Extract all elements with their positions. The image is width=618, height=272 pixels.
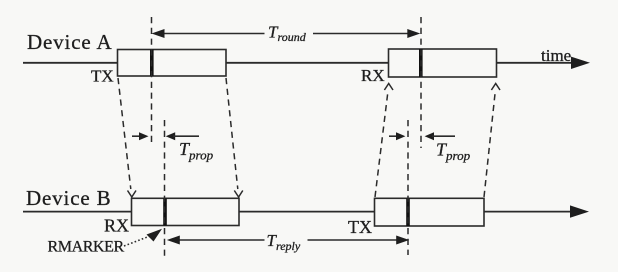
arrowhead T_reply right [396, 236, 409, 245]
arrowhead T_prop left measure [139, 132, 149, 140]
dashed node line B-RX marker [164, 120, 166, 257]
svg-text:Device B: Device B [26, 186, 112, 210]
marker B TX bar [406, 198, 410, 226]
svg-text:RX: RX [361, 66, 385, 85]
arrowhead timeline A [571, 57, 590, 69]
box A TX frame [118, 50, 227, 77]
svg-text:TX: TX [91, 67, 114, 86]
svg-text:time: time [541, 46, 571, 65]
dashed propagation line B-TX-right to A-RX-right [484, 91, 495, 197]
arrowhead down (B-RX-right) [234, 191, 243, 198]
svg-text:Tprop: Tprop [436, 140, 471, 164]
svg-text:Tprop: Tprop [179, 139, 214, 163]
dashed node line B-TX marker [407, 120, 409, 255]
svg-text:RMARKER: RMARKER [48, 239, 125, 256]
wire T_reply left segment [178, 239, 265, 241]
wire timeline A [23, 62, 574, 64]
arrowhead T_reply left [167, 236, 180, 245]
box A RX frame [389, 49, 497, 77]
dashed node line A-TX marker [151, 17, 153, 144]
wire T_reply right segment [308, 239, 399, 241]
arrowhead T_round right [407, 29, 420, 38]
svg-text:Device A: Device A [27, 30, 113, 54]
box B TX frame [375, 198, 485, 226]
wire T_round left segment [163, 33, 265, 35]
svg-text:Tround: Tround [268, 23, 307, 45]
wire T_round right segment [313, 33, 409, 35]
arrowhead timeline B [570, 205, 589, 217]
marker A TX RMARKER bar [150, 50, 154, 77]
dashed propagation line A-TX-right to B-RX-right [226, 78, 238, 189]
svg-text:Treply: Treply [267, 231, 301, 253]
arrowhead T_prop right measure [396, 132, 405, 140]
svg-text:RX: RX [104, 216, 129, 236]
dashed propagation line A-TX-left to B-RX-left [118, 78, 131, 189]
arrowhead T_prop right measure, left-pointing [425, 132, 434, 140]
dashed propagation line B-TX-left to A-RX-left [375, 91, 388, 197]
arrowhead T_prop left measure, left-pointing [166, 132, 176, 140]
wire T_prop right measure, right-pointing arrow [389, 135, 398, 137]
dashed node line A-RX marker [420, 17, 422, 148]
marker B RX RMARKER bar [163, 198, 167, 225]
arrowhead RMARKER pointer [147, 229, 163, 242]
arrowhead up (A-RX-right) [491, 84, 500, 91]
arrowhead down (B-RX-left) [128, 191, 137, 198]
wire T_prop left measure tail [173, 135, 199, 137]
wire T_prop right measure tail [432, 135, 455, 137]
marker A RX bar [419, 49, 423, 77]
svg-text:TX: TX [348, 217, 372, 237]
arrowhead T_round left [152, 29, 165, 38]
wire timeline B [23, 211, 573, 213]
wire T_prop left measure, right-pointing arrow [132, 135, 141, 137]
arrowhead up (A-RX-left) [384, 84, 393, 91]
dotted pointer RMARKER [124, 236, 150, 246]
box B RX frame [132, 198, 240, 225]
